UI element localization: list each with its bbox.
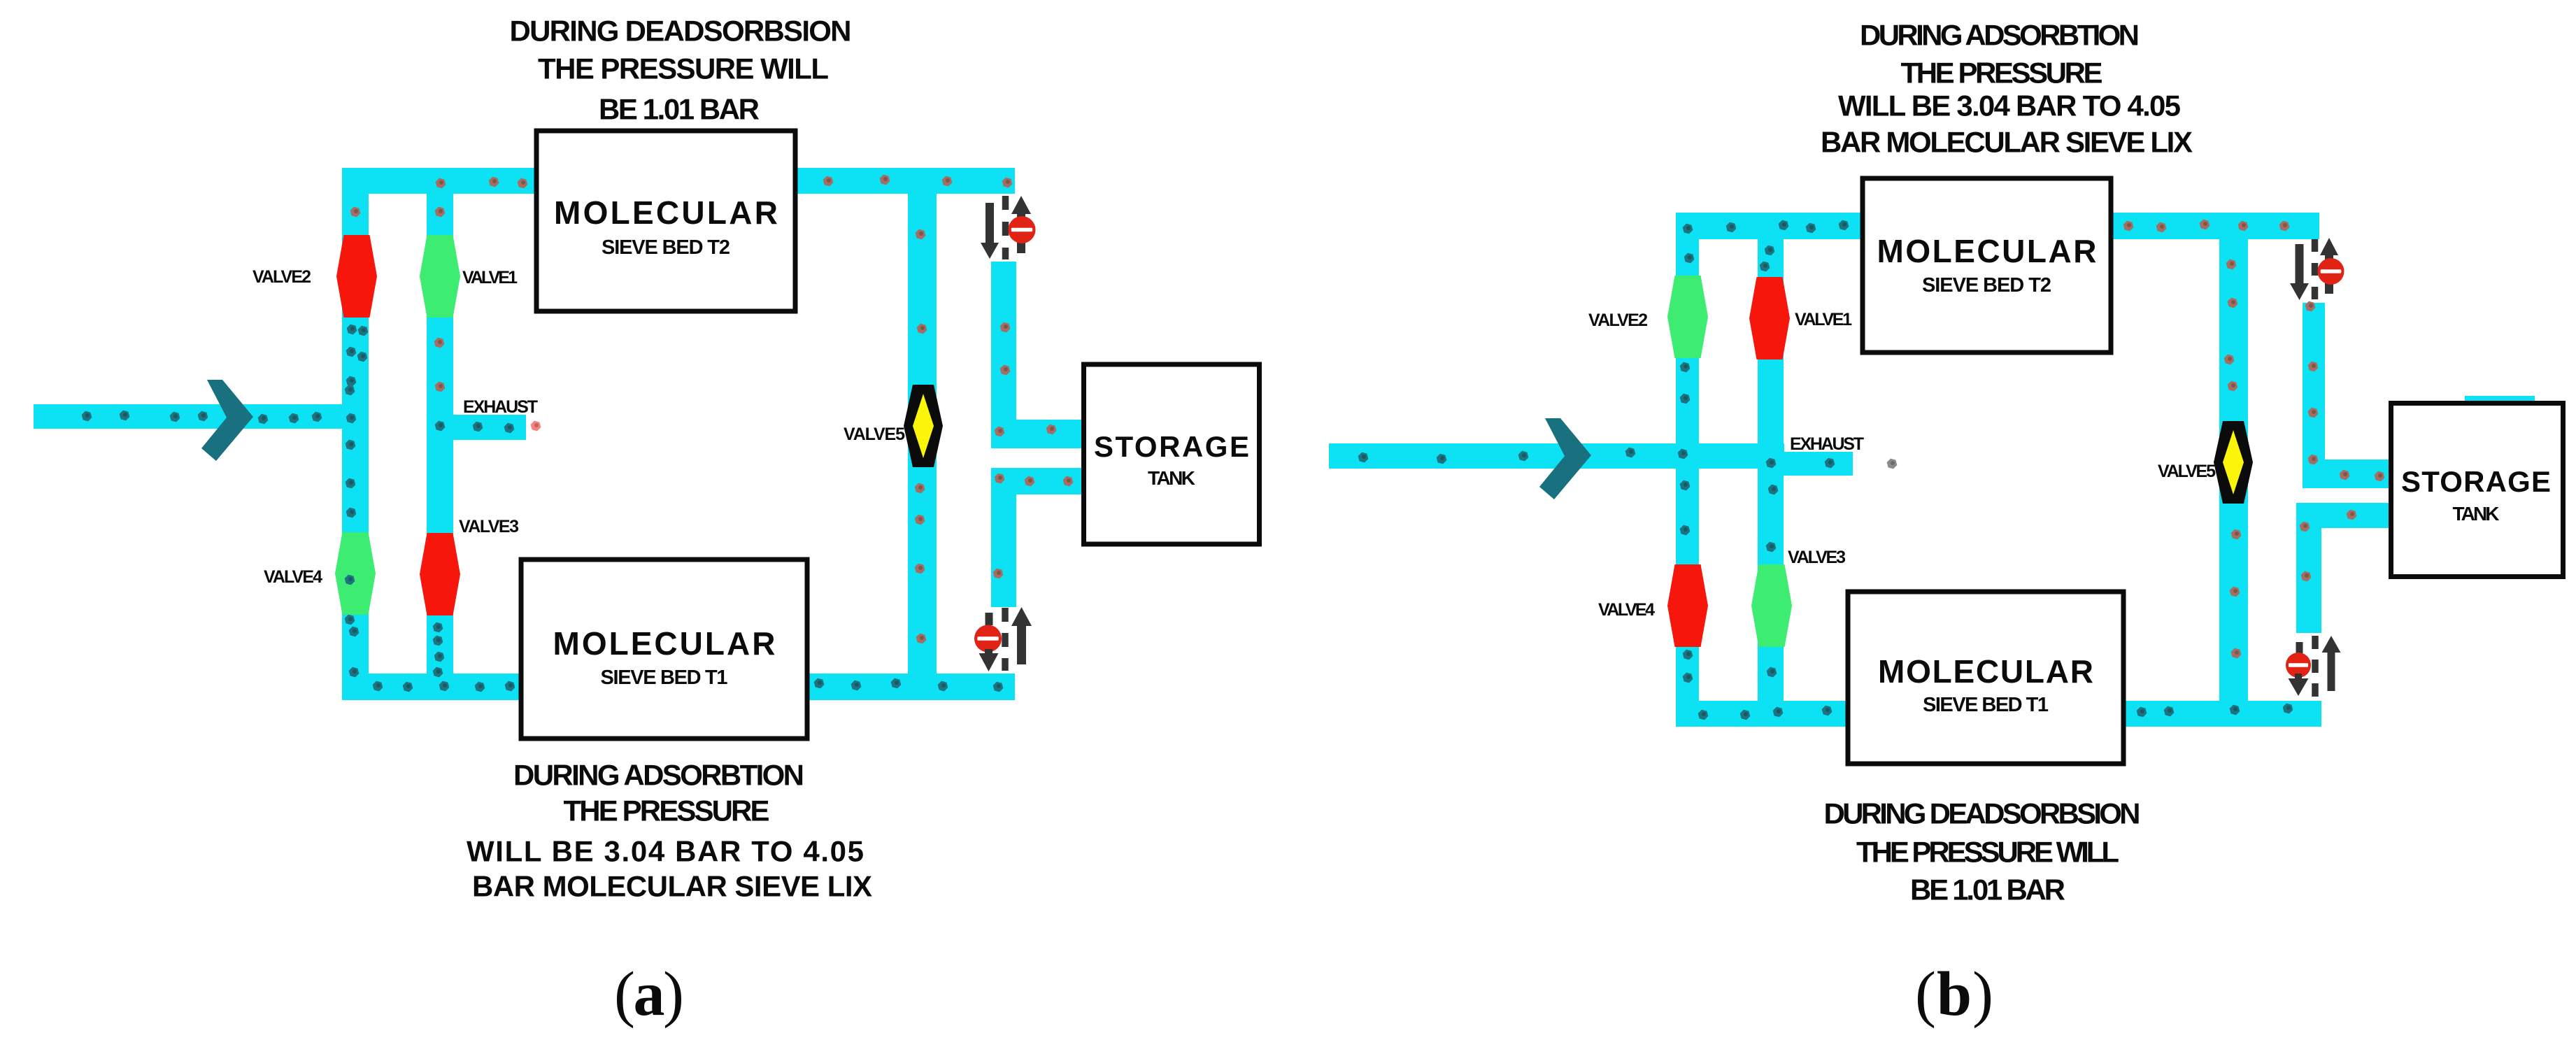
wire: storage upper stub b [2303, 460, 2390, 488]
flow indicator top-right b: dashed divider [2312, 239, 2319, 299]
wire: right product pipe lower b [2296, 503, 2321, 633]
svg-text:SIEVE BED T1: SIEVE BED T1 [601, 667, 728, 689]
wire: inlet pipe b [1329, 443, 1784, 469]
svg-text:DURING ADSORBTION: DURING ADSORBTION [1860, 19, 2140, 52]
flow indicator bottom-right b: down arrowhead [2295, 674, 2302, 678]
molecular sieve bed T1 box b [1848, 592, 2123, 764]
wire: right product pipe upper b [2303, 303, 2325, 488]
svg-text:THE PRESSURE WILL: THE PRESSURE WILL [538, 52, 829, 85]
svg-text:VALVE4: VALVE4 [1598, 600, 1655, 620]
flow indicator bottom-right b: up arrow [2328, 653, 2335, 691]
valve V4 b (red, closed) [1667, 564, 1708, 647]
feed arrow a [201, 380, 253, 461]
svg-text:BAR MOLECULAR SIEVE LIX: BAR MOLECULAR SIEVE LIX [1821, 126, 2193, 159]
wire: storage lower stub a [991, 468, 1081, 494]
svg-text:STORAGE: STORAGE [1094, 430, 1249, 463]
junction dots: top pipe b left [1725, 220, 1850, 234]
molecular sieve bed T2 box a [536, 131, 795, 311]
svg-text:THE PRESSURE WILL: THE PRESSURE WILL [1856, 836, 2119, 869]
wire: vertical pipe 2 a (VALVE1/VALVE3) [427, 168, 453, 700]
storage tank box b [2391, 404, 2563, 577]
wire: right product pipe a upper [991, 262, 1016, 448]
svg-text:TANK: TANK [2453, 503, 2500, 525]
svg-text:BE 1.01 BAR: BE 1.01 BAR [1910, 874, 2065, 906]
flow indicator bottom-right a: dash stub [985, 613, 993, 625]
flow indicator bottom-right a: down arrowhead [985, 649, 992, 653]
junction dots: pipe2 lower a [432, 622, 446, 678]
wire: vertical pipe 2 b (VALVE1/VALVE3) [1758, 213, 1784, 727]
wire: VALVE5 riser b [2219, 239, 2248, 713]
junction dots: top pipe b right [2122, 219, 2291, 234]
junction dots: bottom pipe b [1697, 703, 2294, 721]
junction dots: inlet pipe b [1357, 447, 1689, 465]
valve V2 a (red, closed) [336, 235, 377, 318]
valve V1 b (red, closed) [1749, 277, 1790, 359]
no-entry sign top-right a [1009, 216, 1036, 243]
junction dots: right pipe a [992, 322, 1074, 580]
valve V3 b (green, open) [1751, 564, 1792, 647]
flow indicator top-right b: up arrow [2325, 255, 2333, 294]
svg-text:EXHAUST: EXHAUST [1790, 434, 1864, 454]
junction dots: right pipe b [2298, 301, 2386, 583]
junction dots: valve5 riser a [913, 229, 928, 645]
junction dots: pipe1 b [1679, 223, 1695, 684]
no-entry sign bottom-right a [974, 625, 1002, 653]
valve V2 b (green, open) [1667, 276, 1708, 358]
svg-text:VALVE1: VALVE1 [462, 268, 518, 287]
svg-text:THE PRESSURE: THE PRESSURE [564, 795, 770, 827]
valve V5 b (yellow/black) [2214, 421, 2253, 504]
svg-text:SIEVE BED T2: SIEVE BED T2 [602, 236, 730, 259]
valve V4 a (green, open) [335, 532, 376, 615]
junction dots: inlet pipe a [80, 410, 357, 425]
svg-text:VALVE2: VALVE2 [1588, 311, 1648, 330]
svg-text:VALVE4: VALVE4 [264, 567, 322, 587]
svg-text:MOLECULAR: MOLECULAR [554, 194, 778, 231]
wire: top header pipe a [342, 168, 1015, 194]
svg-text:THE PRESSURE: THE PRESSURE [1901, 57, 2103, 90]
flow indicator top-right a: up arrow [1017, 214, 1025, 253]
valve V5 a (yellow/black) [904, 385, 943, 467]
isolated gray dot b [1886, 458, 1898, 470]
flow indicator top-right a: dashed divider [1002, 196, 1009, 259]
wire: top header pipe b [1676, 213, 2319, 239]
svg-text:VALVE3: VALVE3 [459, 517, 519, 536]
junction dots: pipe2 b [1758, 245, 1836, 678]
flow indicator bottom-right a: up arrow [1017, 626, 1026, 664]
wire: right product pipe a lower [991, 468, 1016, 607]
wire: exhaust stub a [453, 415, 526, 440]
molecular sieve bed T1 box a [521, 560, 807, 739]
flow indicator top-right a: down arrow [985, 203, 994, 243]
svg-text:SIEVE BED T1: SIEVE BED T1 [1923, 694, 2049, 716]
wire: left vertical pipe 1 b (VALVE2/VALVE4) [1676, 213, 1699, 727]
flow indicator bottom-right a: dashed divider [1002, 608, 1009, 671]
svg-text:BAR MOLECULAR SIEVE LIX: BAR MOLECULAR SIEVE LIX [472, 870, 872, 903]
svg-text:VALVE2: VALVE2 [252, 267, 311, 287]
wire: left vertical pipe 1 a (VALVE2/VALVE4) [342, 168, 369, 700]
junction dots: bottom pipe a [371, 678, 1004, 693]
valve V3 a (red, closed) [420, 533, 460, 615]
junction dots: pipe1 a [343, 324, 369, 678]
no-entry sign bottom-right b [2286, 653, 2311, 678]
wire: inlet pipe a [34, 404, 369, 429]
junction dots: top pipe a [349, 174, 1013, 393]
wire: VALVE5 riser a [908, 194, 937, 674]
svg-text:(b): (b) [1915, 960, 1993, 1029]
wire: bottom header pipe b [1676, 701, 2321, 727]
wire: exhaust stub b [1784, 452, 1853, 476]
svg-text:MOLECULAR: MOLECULAR [553, 625, 776, 662]
svg-text:MOLECULAR: MOLECULAR [1878, 653, 2093, 690]
svg-text:BE 1.01 BAR: BE 1.01 BAR [599, 93, 760, 126]
junction dots: valve5 riser b [2223, 259, 2242, 660]
svg-text:EXHAUST: EXHAUST [463, 397, 538, 417]
svg-text:VALVE5: VALVE5 [2158, 462, 2216, 481]
svg-text:VALVE1: VALVE1 [1795, 310, 1852, 329]
wire: storage upper stub a [991, 420, 1081, 448]
svg-text:TANK: TANK [1148, 467, 1195, 489]
flow indicator top-right b: down arrow [2296, 244, 2304, 283]
molecular sieve bed T2 box b [1863, 178, 2111, 352]
valve V1 a (green, open) [420, 235, 460, 318]
feed arrow b [1539, 418, 1591, 499]
storage tank box a [1084, 364, 1260, 544]
svg-text:DURING DEADSORBSION: DURING DEADSORBSION [1824, 797, 2141, 830]
svg-text:STORAGE: STORAGE [2401, 465, 2551, 498]
wire: bottom header pipe a [342, 674, 1015, 700]
svg-text:WILL BE 3.04 BAR TO 4.05: WILL BE 3.04 BAR TO 4.05 [467, 835, 864, 868]
svg-text:DURING ADSORBTION: DURING ADSORBTION [513, 759, 804, 792]
svg-text:DURING DEADSORBSION: DURING DEADSORBSION [510, 15, 852, 48]
no-entry sign top-right b [2318, 258, 2344, 285]
svg-text:SIEVE BED T2: SIEVE BED T2 [1922, 274, 2051, 297]
exhaust outlet dot a [529, 420, 542, 432]
junction dots: exhaust row a [434, 420, 515, 434]
svg-text:VALVE5: VALVE5 [844, 425, 905, 444]
flow indicator bottom-right b: dash stub [2296, 642, 2303, 653]
svg-text:VALVE3: VALVE3 [1788, 548, 1846, 567]
wire: storage lower stub b [2296, 503, 2390, 528]
svg-text:WILL BE 3.04 BAR TO 4.05: WILL BE 3.04 BAR TO 4.05 [1838, 90, 2181, 122]
wire: sliver above storage b [2465, 396, 2535, 401]
flow indicator bottom-right b: dashed divider [2312, 636, 2319, 697]
svg-text:MOLECULAR: MOLECULAR [1877, 233, 2097, 269]
svg-text:(a): (a) [614, 960, 684, 1029]
